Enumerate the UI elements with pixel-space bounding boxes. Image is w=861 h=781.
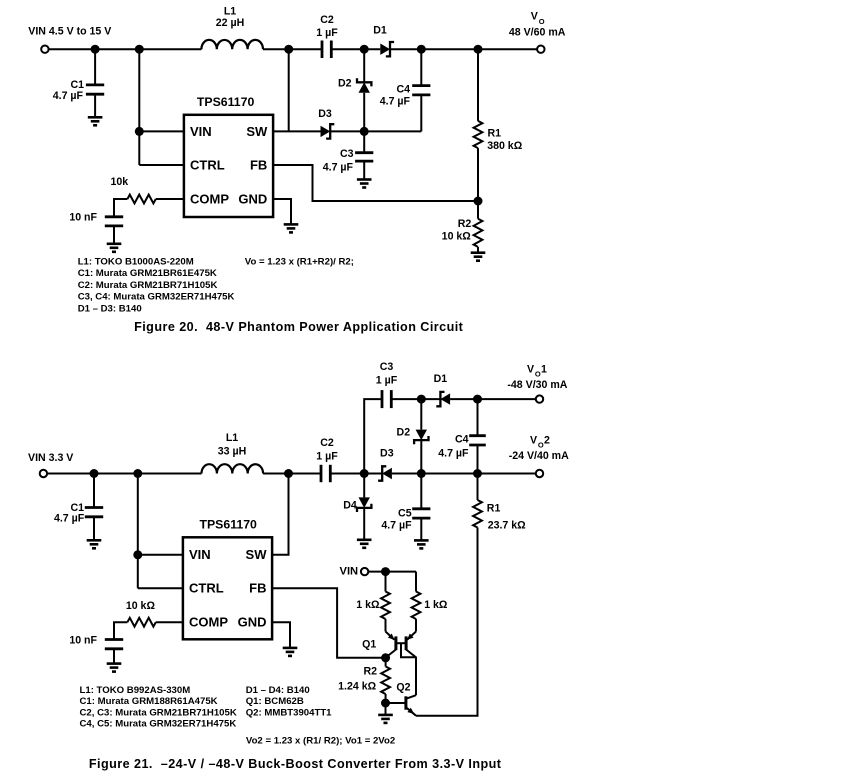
svg-text:-24 V/40 mA: -24 V/40 mA (509, 450, 569, 462)
svg-text:GND: GND (238, 615, 267, 630)
svg-text:C1: Murata GRM21BR61E475K: C1: Murata GRM21BR61E475K (78, 268, 217, 279)
svg-text:D1: D1 (434, 373, 448, 385)
svg-text:L1: TOKO B992AS-330M: L1: TOKO B992AS-330M (80, 685, 191, 696)
svg-text:48 V/60 mA: 48 V/60 mA (509, 26, 566, 38)
svg-text:380 kΩ: 380 kΩ (487, 140, 523, 152)
svg-text:R2: R2 (363, 666, 377, 678)
svg-text:C4: C4 (396, 84, 410, 96)
svg-text:O: O (538, 441, 544, 450)
svg-text:C3: C3 (340, 148, 354, 160)
svg-text:L1: L1 (224, 6, 236, 18)
svg-text:C2: C2 (320, 14, 334, 26)
svg-text:C4, C5: Murata GRM32ER71H475K: C4, C5: Murata GRM32ER71H475K (80, 719, 237, 730)
svg-text:L1: L1 (226, 432, 238, 444)
svg-text:C5: C5 (398, 508, 412, 520)
svg-text:C3, C4: Murata GRM32ER71H475K: C3, C4: Murata GRM32ER71H475K (78, 292, 235, 303)
svg-text:VIN 3.3 V: VIN 3.3 V (28, 452, 73, 464)
svg-text:FB: FB (250, 157, 267, 172)
svg-text:VIN: VIN (340, 566, 359, 578)
svg-text:COMP: COMP (189, 615, 228, 630)
svg-text:D2: D2 (338, 78, 352, 90)
svg-text:10 kΩ: 10 kΩ (442, 231, 472, 243)
svg-text:V: V (527, 363, 534, 375)
svg-text:GND: GND (238, 191, 267, 206)
svg-text:VIN: VIN (190, 124, 212, 139)
svg-text:10 nF: 10 nF (69, 212, 97, 224)
svg-text:1 µF: 1 µF (316, 27, 338, 39)
svg-text:VIN 4.5 V to 15 V: VIN 4.5 V to 15 V (28, 26, 111, 38)
svg-text:D2: D2 (397, 427, 411, 439)
svg-text:D1: D1 (373, 25, 387, 37)
svg-text:C3: C3 (380, 361, 394, 373)
svg-text:10k: 10k (110, 176, 128, 188)
svg-text:COMP: COMP (190, 191, 229, 206)
svg-text:1 µF: 1 µF (316, 451, 338, 463)
svg-text:C1: Murata GRM188R61A475K: C1: Murata GRM188R61A475K (80, 696, 218, 707)
svg-text:D1 – D3: B140: D1 – D3: B140 (78, 303, 142, 314)
svg-text:1 kΩ: 1 kΩ (356, 599, 380, 611)
svg-text:Q1: BCM62B: Q1: BCM62B (246, 696, 304, 707)
svg-text:L1: TOKO B1000AS-220M: L1: TOKO B1000AS-220M (78, 257, 194, 268)
svg-text:1.24 kΩ: 1.24 kΩ (338, 681, 376, 693)
svg-text:V: V (530, 434, 537, 446)
svg-text:33 µH: 33 µH (218, 446, 246, 458)
svg-text:4.7 µF: 4.7 µF (53, 90, 84, 102)
svg-text:Q1: Q1 (362, 639, 376, 651)
svg-text:R2: R2 (458, 218, 472, 230)
svg-text:Vo = 1.23 x (R1+R2)/ R2;: Vo = 1.23 x (R1+R2)/ R2; (245, 257, 354, 268)
svg-text:O: O (539, 17, 545, 26)
svg-text:Figure 21. –24-V / –48-V Buck: Figure 21. –24-V / –48-V Buck-Boost Conv… (89, 757, 502, 771)
svg-text:R1: R1 (488, 128, 502, 140)
svg-text:SW: SW (246, 547, 268, 562)
svg-text:D3: D3 (380, 448, 394, 460)
svg-text:CTRL: CTRL (189, 581, 224, 596)
svg-text:1: 1 (541, 363, 547, 375)
svg-text:Q2: MMBT3904TT1: Q2: MMBT3904TT1 (246, 707, 332, 718)
svg-text:TPS61170: TPS61170 (199, 518, 257, 532)
svg-text:D3: D3 (318, 108, 332, 120)
svg-text:D4: D4 (343, 500, 357, 512)
svg-text:4.7 µF: 4.7 µF (380, 95, 411, 107)
svg-text:O: O (535, 370, 541, 379)
svg-text:R1: R1 (487, 503, 501, 515)
svg-text:4.7 µF: 4.7 µF (438, 448, 469, 460)
svg-text:C2: Murata GRM21BR71H105K: C2: Murata GRM21BR71H105K (78, 280, 218, 291)
svg-text:10 kΩ: 10 kΩ (126, 600, 156, 612)
svg-text:1 µF: 1 µF (376, 375, 398, 387)
svg-text:SW: SW (246, 124, 268, 139)
svg-text:FB: FB (249, 581, 266, 596)
svg-text:CTRL: CTRL (190, 157, 225, 172)
svg-text:C2, C3: Murata GRM21BR71H105K: C2, C3: Murata GRM21BR71H105K (80, 707, 237, 718)
svg-text:Vo2 = 1.23 x (R1/ R2); Vo1 = 2: Vo2 = 1.23 x (R1/ R2); Vo1 = 2Vo2 (246, 736, 395, 747)
svg-text:4.7 µF: 4.7 µF (381, 519, 412, 531)
svg-text:TPS61170: TPS61170 (197, 95, 255, 109)
svg-text:2: 2 (544, 434, 550, 446)
svg-text:1 kΩ: 1 kΩ (424, 599, 448, 611)
svg-text:VIN: VIN (189, 547, 211, 562)
svg-text:Figure 20. 48-V Phantom Power: Figure 20. 48-V Phantom Power Applicatio… (134, 320, 464, 334)
svg-text:23.7 kΩ: 23.7 kΩ (488, 520, 526, 532)
svg-text:10 nF: 10 nF (69, 634, 97, 646)
svg-text:22 µH: 22 µH (216, 17, 244, 29)
svg-text:Q2: Q2 (396, 682, 410, 694)
svg-text:D1 – D4: B140: D1 – D4: B140 (246, 685, 310, 696)
svg-text:V: V (531, 11, 538, 23)
svg-text:C4: C4 (455, 434, 469, 446)
svg-text:-48 V/30 mA: -48 V/30 mA (507, 379, 567, 391)
svg-text:C2: C2 (320, 437, 334, 449)
svg-text:4.7 µF: 4.7 µF (54, 513, 85, 525)
svg-text:4.7 µF: 4.7 µF (323, 162, 354, 174)
